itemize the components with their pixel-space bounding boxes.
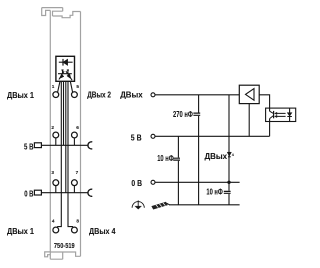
0V rail [155, 181, 240, 183]
module 750-519 body outline [42, 8, 81, 260]
pin 6 [72, 132, 78, 138]
svg-text:0 В: 0 В [131, 178, 142, 188]
LED [289, 108, 291, 121]
function box U1 [56, 56, 75, 81]
svg-text:1: 1 [52, 84, 55, 89]
wire to pin 5 [70, 81, 72, 92]
pin 3 [53, 180, 59, 186]
module body top steps [53, 12, 81, 18]
internal wire bundle [56, 81, 75, 228]
svg-text:ДВых 1: ДВых 1 [7, 226, 34, 236]
svg-text:5 В: 5 В [131, 132, 142, 142]
module top notch [53, 11, 63, 16]
driver amplifier U2 [239, 85, 269, 136]
stem pin 6 [73, 138, 75, 146]
pin 1 [53, 92, 59, 98]
node DVyh terminal [151, 93, 155, 97]
light arrows [277, 113, 286, 116]
module right edge [80, 12, 82, 257]
5V wire [41, 144, 88, 146]
svg-text:3: 3 [51, 170, 54, 175]
pin 8 [72, 227, 78, 233]
wire amp bottom [248, 104, 250, 137]
pin 2 [53, 132, 59, 138]
suppressor diode D1 in box [59, 59, 73, 66]
stem pin 2 [55, 138, 57, 146]
5V rail [155, 135, 270, 137]
capacitor C1 270nF branch [193, 95, 200, 205]
node 0V terminal [151, 180, 155, 184]
amplifier triangle [246, 89, 255, 101]
svg-text:5: 5 [76, 84, 79, 89]
svg-text:4: 4 [232, 153, 234, 157]
5V field line [34, 142, 92, 149]
pin 7 [72, 180, 78, 186]
wire to pin 8 [68, 81, 73, 228]
diode D3 [227, 152, 231, 156]
diode + capacitor C3 branch [224, 95, 232, 205]
svg-text:ДВых: ДВых [120, 90, 143, 100]
DIN rail ground symbol [152, 202, 170, 209]
svg-text:7: 7 [76, 170, 79, 175]
phototransistor [269, 108, 271, 136]
0V jumper contact hook [88, 189, 92, 196]
svg-text:ДВых: ДВых [205, 151, 228, 161]
module bottom foot [50, 252, 62, 259]
svg-text:ДВых 4: ДВых 4 [89, 226, 116, 236]
terminal circles pins 1-8 [53, 92, 77, 233]
LED pair D2 in box [58, 70, 72, 80]
svg-text:2: 2 [51, 125, 54, 130]
wire to 5V line [63, 81, 65, 145]
DVyh rail [155, 94, 239, 96]
capacitor C2 10nF branch [173, 136, 180, 205]
0V wire [41, 192, 88, 194]
functional earth symbol [132, 200, 144, 209]
5V connector tag [34, 143, 41, 148]
svg-text:8: 8 [76, 218, 79, 223]
svg-text:10 нФ: 10 нФ [206, 187, 222, 197]
module top tab [42, 8, 63, 12]
svg-text:750-519: 750-519 [54, 243, 75, 250]
earth rail [169, 204, 240, 206]
svg-text:270 нФ: 270 нФ [173, 109, 193, 119]
capacitor C3 plates [224, 191, 231, 193]
svg-text:6: 6 [76, 125, 79, 130]
wire to pin 4 [57, 81, 61, 228]
svg-text:5 В: 5 В [24, 143, 34, 152]
svg-text:10 нФ: 10 нФ [157, 153, 174, 163]
pin 4 [53, 227, 59, 233]
junction dot 0V [227, 181, 230, 184]
module bottom-left latch hook [45, 252, 51, 257]
stem pin 3 [55, 185, 57, 192]
schematic rail labels [120, 90, 234, 197]
svg-text:ДВых 2: ДВых 2 [87, 90, 111, 100]
wire to pin 1 [58, 81, 60, 92]
0V field line [34, 189, 92, 196]
5V jumper contact hook [88, 142, 92, 149]
wire amp out [259, 95, 269, 108]
node 5V terminal [151, 134, 155, 138]
svg-text:4: 4 [52, 218, 55, 223]
pin 5 [72, 92, 78, 98]
wire [177, 136, 179, 205]
schematic terminal circles [151, 93, 155, 185]
0V connector tag [34, 190, 41, 195]
module left edge [49, 10, 51, 259]
wire [228, 95, 230, 205]
wire to 0V line [65, 81, 67, 192]
module bottom steps [50, 252, 80, 256]
module top-left latch hook [42, 8, 51, 16]
wire to earth rail [167, 203, 170, 205]
svg-text:0 В: 0 В [24, 190, 33, 199]
left labels [7, 90, 116, 250]
pin numbers [51, 84, 79, 223]
optocoupler U3 [266, 108, 296, 136]
stem pin 7 [73, 185, 75, 192]
wire [198, 95, 200, 205]
svg-text:ДВых 1: ДВых 1 [7, 90, 34, 100]
capacitor C2 plates [173, 158, 180, 160]
capacitor C1 plates [193, 113, 200, 115]
schematic rails [155, 95, 270, 205]
